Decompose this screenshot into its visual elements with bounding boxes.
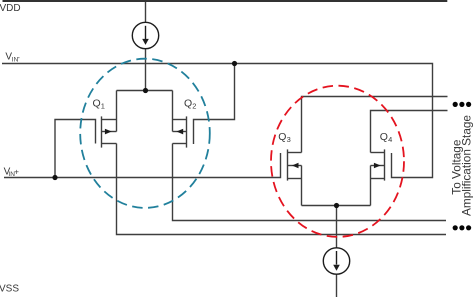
svg-text:Q: Q: [93, 97, 101, 109]
svg-text:-: -: [17, 53, 20, 62]
svg-text:VDD: VDD: [0, 3, 21, 14]
svg-text:To Voltage Amplification S: To Voltage Amplification Stage: [450, 115, 474, 216]
svg-text:1: 1: [101, 101, 105, 110]
svg-text:2: 2: [192, 102, 196, 111]
svg-text:Q: Q: [278, 131, 286, 143]
svg-text:Q: Q: [184, 98, 192, 110]
svg-text:+: +: [14, 168, 19, 177]
svg-text:4: 4: [388, 135, 392, 144]
svg-text:VSS: VSS: [0, 283, 19, 294]
svg-text:3: 3: [287, 135, 291, 144]
svg-text:Q: Q: [380, 131, 388, 143]
